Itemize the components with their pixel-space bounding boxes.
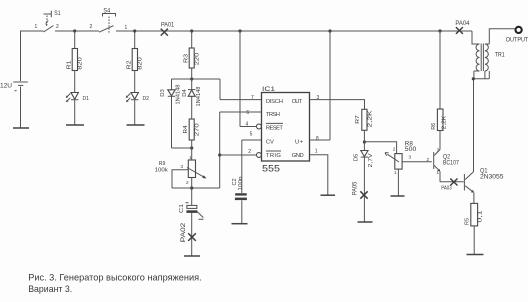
- svg-text:C1: C1: [179, 204, 185, 213]
- svg-text:4: 4: [246, 122, 249, 128]
- svg-text:PA01: PA01: [161, 21, 175, 28]
- svg-text:DISCH: DISCH: [266, 99, 283, 105]
- svg-text:D3: D3: [160, 89, 166, 97]
- svg-text:6: 6: [246, 110, 249, 116]
- svg-text:OUTPUT: OUTPUT: [506, 37, 528, 44]
- svg-text:PA02: PA02: [180, 222, 187, 242]
- svg-text:2N3055: 2N3055: [480, 174, 504, 181]
- svg-text:Рис. 3. Генератор высокого нап: Рис. 3. Генератор высокого напряжения.: [28, 272, 202, 282]
- svg-text:R7: R7: [355, 115, 361, 124]
- svg-text:2: 2: [393, 147, 396, 152]
- svg-text:U+: U+: [295, 139, 304, 145]
- svg-text:PA05: PA05: [353, 181, 359, 195]
- svg-text:TRIG: TRIG: [266, 153, 281, 159]
- svg-text:R6: R6: [431, 123, 437, 130]
- svg-text:2,7V: 2,7V: [368, 153, 374, 167]
- svg-text:R4: R4: [183, 126, 189, 134]
- svg-text:3: 3: [181, 164, 184, 169]
- svg-text:1: 1: [315, 148, 318, 154]
- svg-text:2: 2: [248, 149, 251, 155]
- svg-text:Вариант 3.: Вариант 3.: [28, 284, 72, 294]
- svg-text:R9: R9: [159, 161, 166, 167]
- svg-text:R5: R5: [464, 218, 470, 225]
- svg-text:100n: 100n: [238, 176, 244, 190]
- svg-text:1: 1: [189, 155, 192, 160]
- svg-text:1: 1: [125, 25, 128, 31]
- svg-text:R3: R3: [183, 54, 189, 63]
- svg-text:7: 7: [251, 95, 254, 101]
- svg-text:D5: D5: [354, 154, 360, 162]
- svg-text:TR1: TR1: [495, 53, 505, 59]
- svg-text:PA04: PA04: [455, 20, 469, 27]
- svg-text:3: 3: [409, 155, 412, 160]
- svg-text:RESET: RESET: [266, 126, 283, 132]
- svg-text:555: 555: [262, 164, 280, 174]
- svg-text:500: 500: [405, 147, 417, 153]
- svg-text:D4: D4: [182, 89, 188, 97]
- svg-text:CV: CV: [266, 139, 274, 145]
- svg-text:5: 5: [250, 132, 253, 138]
- svg-text:12U: 12U: [0, 84, 12, 90]
- svg-text:8: 8: [316, 136, 319, 142]
- svg-text:820: 820: [78, 57, 84, 70]
- svg-text:220: 220: [195, 53, 201, 66]
- svg-text:BC107: BC107: [443, 160, 460, 166]
- svg-text:2: 2: [186, 180, 189, 185]
- svg-text:1: 1: [394, 170, 397, 175]
- svg-text:GND: GND: [292, 153, 304, 159]
- svg-text:100k: 100k: [155, 167, 168, 173]
- svg-text:R1: R1: [67, 61, 73, 70]
- svg-text:2,2K: 2,2K: [368, 110, 374, 127]
- svg-text:820: 820: [138, 57, 144, 70]
- svg-text:OUT: OUT: [292, 99, 303, 105]
- svg-text:S1: S1: [54, 11, 61, 17]
- svg-text:R2: R2: [127, 61, 133, 70]
- svg-text:TRSH: TRSH: [266, 112, 280, 118]
- svg-text:2,2K: 2,2K: [442, 115, 448, 129]
- svg-text:0,1: 0,1: [478, 211, 484, 223]
- svg-text:PA03: PA03: [441, 186, 452, 192]
- svg-text:2: 2: [56, 24, 59, 30]
- svg-text:2: 2: [90, 24, 93, 30]
- svg-text:1: 1: [35, 24, 38, 30]
- svg-text:1N4148: 1N4148: [175, 85, 181, 105]
- svg-text:D2: D2: [143, 96, 150, 102]
- svg-text:D1: D1: [83, 96, 90, 102]
- svg-text:1: 1: [437, 170, 440, 175]
- svg-text:2: 2: [427, 157, 430, 162]
- svg-text:270: 270: [194, 123, 200, 136]
- svg-text:1N4148: 1N4148: [196, 87, 202, 107]
- svg-text:3: 3: [437, 147, 440, 152]
- svg-text:IC1: IC1: [262, 86, 275, 93]
